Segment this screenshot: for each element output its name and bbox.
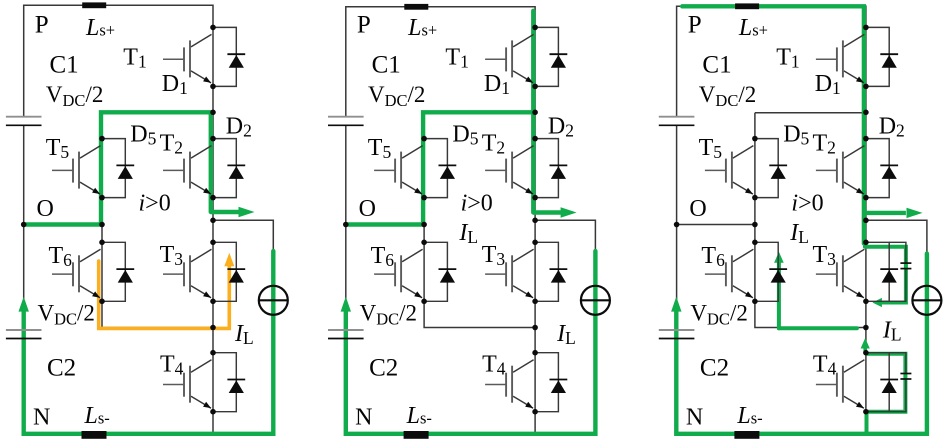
node: emitter of T1 — [532, 84, 538, 90]
diode of T5 — [102, 139, 134, 198]
wire: clamp top connection to midpoint — [424, 112, 535, 114]
node: collector of T4 — [210, 350, 216, 356]
node: emitter of T4 — [210, 409, 216, 415]
svg-text:C2: C2 — [47, 355, 76, 382]
svg-text:C1: C1 — [702, 52, 731, 79]
wire: left rail below C2 to bottom — [24, 339, 274, 434]
wire: top rail P — [346, 7, 535, 117]
transistor T4 — [163, 360, 212, 409]
green path: up through D6 — [777, 262, 781, 328]
svg-text:O: O — [359, 196, 376, 222]
node: emitter of T2 — [532, 195, 538, 201]
transistor T3 — [816, 249, 865, 297]
node: output — [863, 218, 869, 224]
wire: clamp top connection to midpoint — [102, 112, 213, 114]
node: output — [210, 218, 216, 224]
node O on left rail — [674, 222, 680, 228]
node: midpoint between T1 and T2 — [863, 110, 869, 116]
inductor Ls- — [734, 431, 759, 439]
node: collector of T3 — [532, 240, 538, 246]
wire: clamp leg (D5 top to T6 bottom) — [423, 113, 425, 302]
diode of T1 — [213, 27, 245, 86]
orange commutation path: T6 - lower junction - D3 — [99, 261, 230, 328]
diode of T1 — [535, 27, 567, 86]
capacitor C2 — [328, 330, 364, 339]
transistor T1 — [163, 34, 212, 83]
wire: main leg T1..T4 — [212, 27, 214, 411]
snubber capacitor across diode of T3 — [889, 242, 911, 301]
snubber capacitor across diode of T4 — [889, 353, 911, 412]
node: emitter of T3 — [863, 299, 869, 305]
diode of T3 — [213, 242, 245, 301]
node: emitter of T2 — [210, 195, 216, 201]
node: collector of T5 — [752, 136, 758, 142]
wire: left rail between C1 and C2 — [676, 125, 678, 330]
wire: clamp leg (D5 top to T6 bottom) — [754, 113, 756, 302]
diode of T6 — [755, 242, 787, 301]
wire: O rail to clamp leg — [346, 224, 424, 226]
node: emitter of T4 — [863, 409, 869, 415]
diode of T4 — [535, 353, 567, 412]
svg-text:C1: C1 — [50, 52, 79, 79]
current source — [912, 286, 941, 315]
wire: top rail P — [677, 6, 866, 116]
transistor T2 — [485, 146, 533, 195]
inductor Ls- — [404, 431, 429, 439]
current source — [581, 286, 610, 315]
node: collector of T6 — [421, 240, 427, 246]
diode of T2 — [866, 139, 898, 198]
diode of T1 — [866, 27, 898, 86]
node: collector of T1 — [210, 25, 216, 31]
node: emitter of T4 — [532, 409, 538, 415]
wire: output node to current source — [213, 220, 273, 433]
wire: left rail below C2 to bottom — [346, 339, 596, 434]
transistor T2 — [816, 146, 865, 195]
node: emitter of T5 — [99, 195, 105, 201]
node: clamp leg at O rail — [752, 222, 758, 228]
node: lower junction T6/T3/T4 — [863, 325, 869, 331]
transistor T6 — [52, 249, 101, 297]
node: collector of T6 — [99, 240, 105, 246]
green return path: source - N rail - C2 — [24, 251, 274, 434]
green output arrow line — [864, 211, 906, 215]
green loop: T4 snubber charge path — [867, 354, 906, 434]
wire: O rail to clamp leg — [677, 224, 755, 226]
capacitor C1 — [659, 117, 695, 126]
diode of T3 — [866, 242, 898, 301]
wire: main leg T1..T4 — [534, 27, 536, 411]
node: lower junction T6/T3/T4 — [532, 325, 538, 331]
node: collector of T2 — [210, 136, 216, 142]
diode of T5 — [755, 139, 787, 198]
node: emitter of T1 — [210, 84, 216, 90]
transistor T1 — [816, 34, 865, 83]
orange arrowhead: up through D3 — [224, 253, 234, 266]
diode of T5 — [424, 139, 456, 198]
node: collector of T6 — [752, 240, 758, 246]
wire: left rail below C2 to bottom — [677, 339, 927, 434]
svg-text:C1: C1 — [372, 52, 401, 79]
diode of T4 — [866, 353, 898, 412]
svg-text:i>0: i>0 — [461, 190, 493, 216]
svg-text:N: N — [686, 405, 703, 431]
transistor T2 — [163, 146, 212, 195]
node: collector of T3 — [863, 240, 869, 246]
node: emitter of T3 — [210, 299, 216, 305]
green arrowhead: up through D6 — [774, 252, 784, 263]
green current path: P rail - T1 - output — [531, 11, 535, 213]
green arrowhead: output current — [561, 207, 577, 217]
wire: T6 emitter to lower junction — [755, 301, 866, 327]
green current path: O - D5/T5 - T2 - output — [26, 112, 211, 224]
transistor T3 — [163, 249, 212, 297]
green arrowhead: output current — [907, 208, 923, 218]
wire: left rail between C1 and C2 — [345, 125, 347, 330]
diode of T2 — [535, 139, 567, 198]
node: emitter of T6 — [421, 299, 427, 305]
node O on left rail — [21, 222, 27, 228]
svg-text:N: N — [355, 405, 372, 431]
svg-text:C2: C2 — [700, 355, 729, 382]
node O on left rail — [343, 222, 349, 228]
node: emitter of T3 — [532, 299, 538, 305]
transistor T1 — [485, 34, 533, 83]
green path: D6 bottom to lower junction — [779, 326, 857, 330]
green arrowhead: output current — [239, 207, 255, 217]
transistor T6 — [705, 249, 754, 297]
diode of T6 — [102, 242, 134, 301]
svg-text:P: P — [35, 12, 49, 39]
capacitor C2 — [659, 330, 695, 339]
node: collector of T1 — [863, 25, 869, 31]
green arrowhead: up into C2 rail — [341, 297, 351, 312]
wire: main leg bottom to N rail — [534, 412, 536, 434]
green arrowhead: up into lower junction — [863, 347, 867, 353]
svg-text:O: O — [37, 196, 54, 222]
wire: O rail to clamp leg — [24, 224, 102, 226]
wire: left rail between C1 and C2 — [23, 125, 25, 330]
wire: T6 emitter to lower junction — [424, 301, 535, 327]
transistor T4 — [816, 360, 865, 409]
node: emitter of T1 — [863, 84, 869, 90]
node: emitter of T6 — [99, 299, 105, 305]
inductor Ls- — [82, 431, 107, 439]
inductor Ls+ — [82, 2, 106, 8]
green arrowhead: up into C2 rail — [671, 297, 681, 312]
wire: clamp top connection to midpoint — [755, 112, 866, 114]
green return path: source - N rail - C2 — [676, 254, 927, 434]
node: output — [532, 218, 538, 224]
wire: output node to current source — [535, 220, 595, 433]
transistor T5 — [52, 146, 101, 195]
node: emitter of T5 — [421, 195, 427, 201]
node: collector of T1 — [532, 25, 538, 31]
current source — [259, 286, 288, 315]
green current path: P rail - down T1,T2 leg — [682, 6, 864, 243]
node: midpoint between T1 and T2 — [532, 110, 538, 116]
wire: T6 emitter to lower junction — [102, 301, 213, 327]
wire: clamp leg (D5 top to T6 bottom) — [101, 113, 103, 302]
inductor Ls+ — [404, 4, 428, 10]
capacitor C1 — [328, 117, 364, 126]
transistor T3 — [485, 249, 533, 297]
diode of T6 — [424, 242, 456, 301]
inductor Ls+ — [735, 3, 759, 9]
transistor T5 — [705, 146, 754, 195]
diode of T3 — [535, 242, 567, 301]
transistor T5 — [374, 146, 423, 195]
transistor T6 — [374, 249, 423, 297]
transistor T4 — [485, 360, 533, 409]
wire: main leg bottom to N rail — [212, 412, 214, 434]
node: collector of T5 — [99, 136, 105, 142]
node: clamp leg at O rail — [99, 222, 105, 228]
node: collector of T3 — [210, 240, 216, 246]
green arrowhead: into T3 emitter — [872, 298, 882, 307]
node: emitter of T6 — [752, 299, 758, 305]
svg-text:P: P — [357, 12, 371, 39]
node: collector of T4 — [532, 350, 538, 356]
wire: output node to current source — [866, 220, 927, 433]
green loop: T3 snubber charge path — [865, 247, 906, 303]
diode of T4 — [213, 353, 245, 412]
node: emitter of T5 — [752, 195, 758, 201]
node: collector of T2 — [532, 136, 538, 142]
green path: O - clamp leg - D5 top — [348, 112, 533, 224]
svg-text:C2: C2 — [369, 355, 398, 382]
svg-text:O: O — [689, 196, 706, 222]
wire: main leg T1..T4 — [865, 27, 867, 411]
svg-text:P: P — [688, 12, 702, 39]
node: emitter of T2 — [863, 195, 869, 201]
node: clamp leg at O rail — [421, 222, 427, 228]
svg-text:N: N — [33, 405, 50, 431]
node: collector of T5 — [421, 136, 427, 142]
capacitor C2 — [6, 330, 42, 339]
green return path: source - N rail - C2 — [346, 251, 596, 434]
node: midpoint between T1 and T2 — [210, 110, 216, 116]
wire: main leg bottom to N rail — [865, 412, 867, 434]
node: collector of T2 — [863, 136, 869, 142]
capacitor C1 — [6, 117, 42, 126]
wire: top rail P — [24, 5, 213, 116]
svg-text:i>0: i>0 — [791, 190, 823, 216]
svg-text:i>0: i>0 — [139, 190, 171, 216]
green arrowhead: up into C2 rail — [19, 297, 29, 312]
diode of T2 — [213, 139, 245, 198]
node: collector of T4 — [863, 350, 869, 356]
node: lower junction T6/T3/T4 — [210, 325, 216, 331]
